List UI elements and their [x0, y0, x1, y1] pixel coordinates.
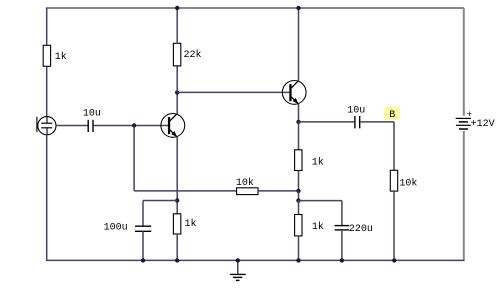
node rail ground junction	[236, 258, 240, 262]
resistor R1 1k	[43, 45, 50, 66]
wire C1 to Q1 base	[94, 125, 169, 127]
node Q1 emitter junction	[175, 198, 179, 202]
wire Q2 emitter to R5	[298, 122, 300, 150]
resistor R3 10k feedback	[237, 188, 258, 195]
battery B1	[456, 118, 471, 129]
wire battery branch right vertical lower	[463, 131, 465, 260]
wire left rail bottom segment	[46, 135, 48, 261]
resistor R6 1k	[173, 214, 180, 234]
svg-text:220u: 220u	[349, 224, 373, 235]
capacitor C2 10u	[355, 116, 360, 128]
node rail C4 junction	[340, 258, 344, 262]
node Q2 emitter junction	[296, 120, 300, 124]
resistor R7 1k	[295, 215, 302, 236]
node Q1 collector junction	[175, 90, 179, 94]
node rail C3 junction	[141, 258, 145, 262]
microphone MK1	[37, 117, 56, 135]
wire C2 to node B corner	[360, 121, 394, 123]
wire R2 to top rail	[176, 8, 178, 44]
wire Q1 collector to R2	[176, 66, 178, 92]
wire left rail top segment	[46, 8, 48, 46]
wire Q2 emitter to C2	[299, 121, 355, 123]
node rail R7 junction	[296, 258, 300, 262]
wire Q2 emitter vertical	[298, 104, 300, 122]
wire emitter junction to C3 branch	[143, 200, 177, 202]
wire Q1 collector vertical	[176, 92, 178, 114]
node B highlight	[385, 107, 400, 121]
wire Q2 collector vertical	[298, 8, 300, 81]
svg-text:22k: 22k	[184, 49, 202, 61]
wire R6 to rail	[176, 234, 178, 260]
wire C4 branch vertical upper	[341, 201, 343, 226]
wire feedback horizontal left	[134, 190, 237, 192]
svg-text:B: B	[389, 110, 395, 121]
svg-text:1k: 1k	[312, 156, 324, 168]
svg-text:10k: 10k	[236, 177, 254, 189]
svg-text:100u: 100u	[104, 223, 128, 234]
wire bypass node to C4 branch	[299, 200, 342, 202]
capacitor C3 100u	[135, 226, 151, 231]
wire feedback vertical drop	[133, 126, 135, 191]
svg-text:10k: 10k	[399, 177, 417, 189]
transistor Q1	[161, 114, 185, 138]
wire bypass node to R7	[298, 201, 300, 215]
wire top supply rail	[46, 7, 464, 9]
wire R7 to rail	[298, 236, 300, 261]
svg-text:+12V: +12V	[471, 119, 495, 130]
transistor Q2	[282, 81, 306, 105]
capacitor C1 10u	[88, 120, 93, 132]
svg-text:1k: 1k	[312, 221, 324, 233]
wire battery branch right vertical upper	[463, 8, 465, 116]
wire bottom ground rail	[46, 259, 465, 261]
wire mic output to C1	[56, 125, 88, 127]
resistor R8 10k	[390, 170, 397, 191]
wire R5 to feedback node	[298, 171, 300, 191]
node feedback junction	[296, 189, 300, 193]
wire Q1 emitter vertical	[176, 137, 178, 214]
wire feedback node to bypass node	[298, 191, 300, 201]
wire C4 branch vertical lower	[341, 230, 343, 261]
svg-text:10u: 10u	[347, 105, 365, 116]
node rail R8 junction	[392, 258, 396, 262]
wire left rail mid segment	[46, 66, 48, 117]
wire C3 branch vertical lower	[142, 231, 144, 260]
resistor R2 22k	[173, 43, 180, 66]
node rail R6 junction	[175, 258, 179, 262]
node top rail R2 junction	[175, 6, 179, 10]
wire R8 to rail	[393, 191, 395, 260]
capacitor C4 220u	[335, 226, 350, 230]
ground	[230, 260, 246, 280]
wire C3 branch vertical upper	[142, 201, 144, 227]
wire Q1 collector to Q2 base	[177, 91, 289, 93]
wire feedback to Q2 emitter node	[258, 190, 298, 192]
svg-text:1k: 1k	[55, 51, 67, 63]
svg-text:10u: 10u	[83, 109, 101, 120]
node input junction	[132, 123, 136, 127]
resistor R5 1k	[295, 150, 302, 171]
node bypass junction	[296, 198, 300, 202]
svg-text:1k: 1k	[185, 218, 197, 230]
node top rail Q2 junction	[296, 6, 300, 10]
wire node B down to R8	[393, 122, 395, 170]
